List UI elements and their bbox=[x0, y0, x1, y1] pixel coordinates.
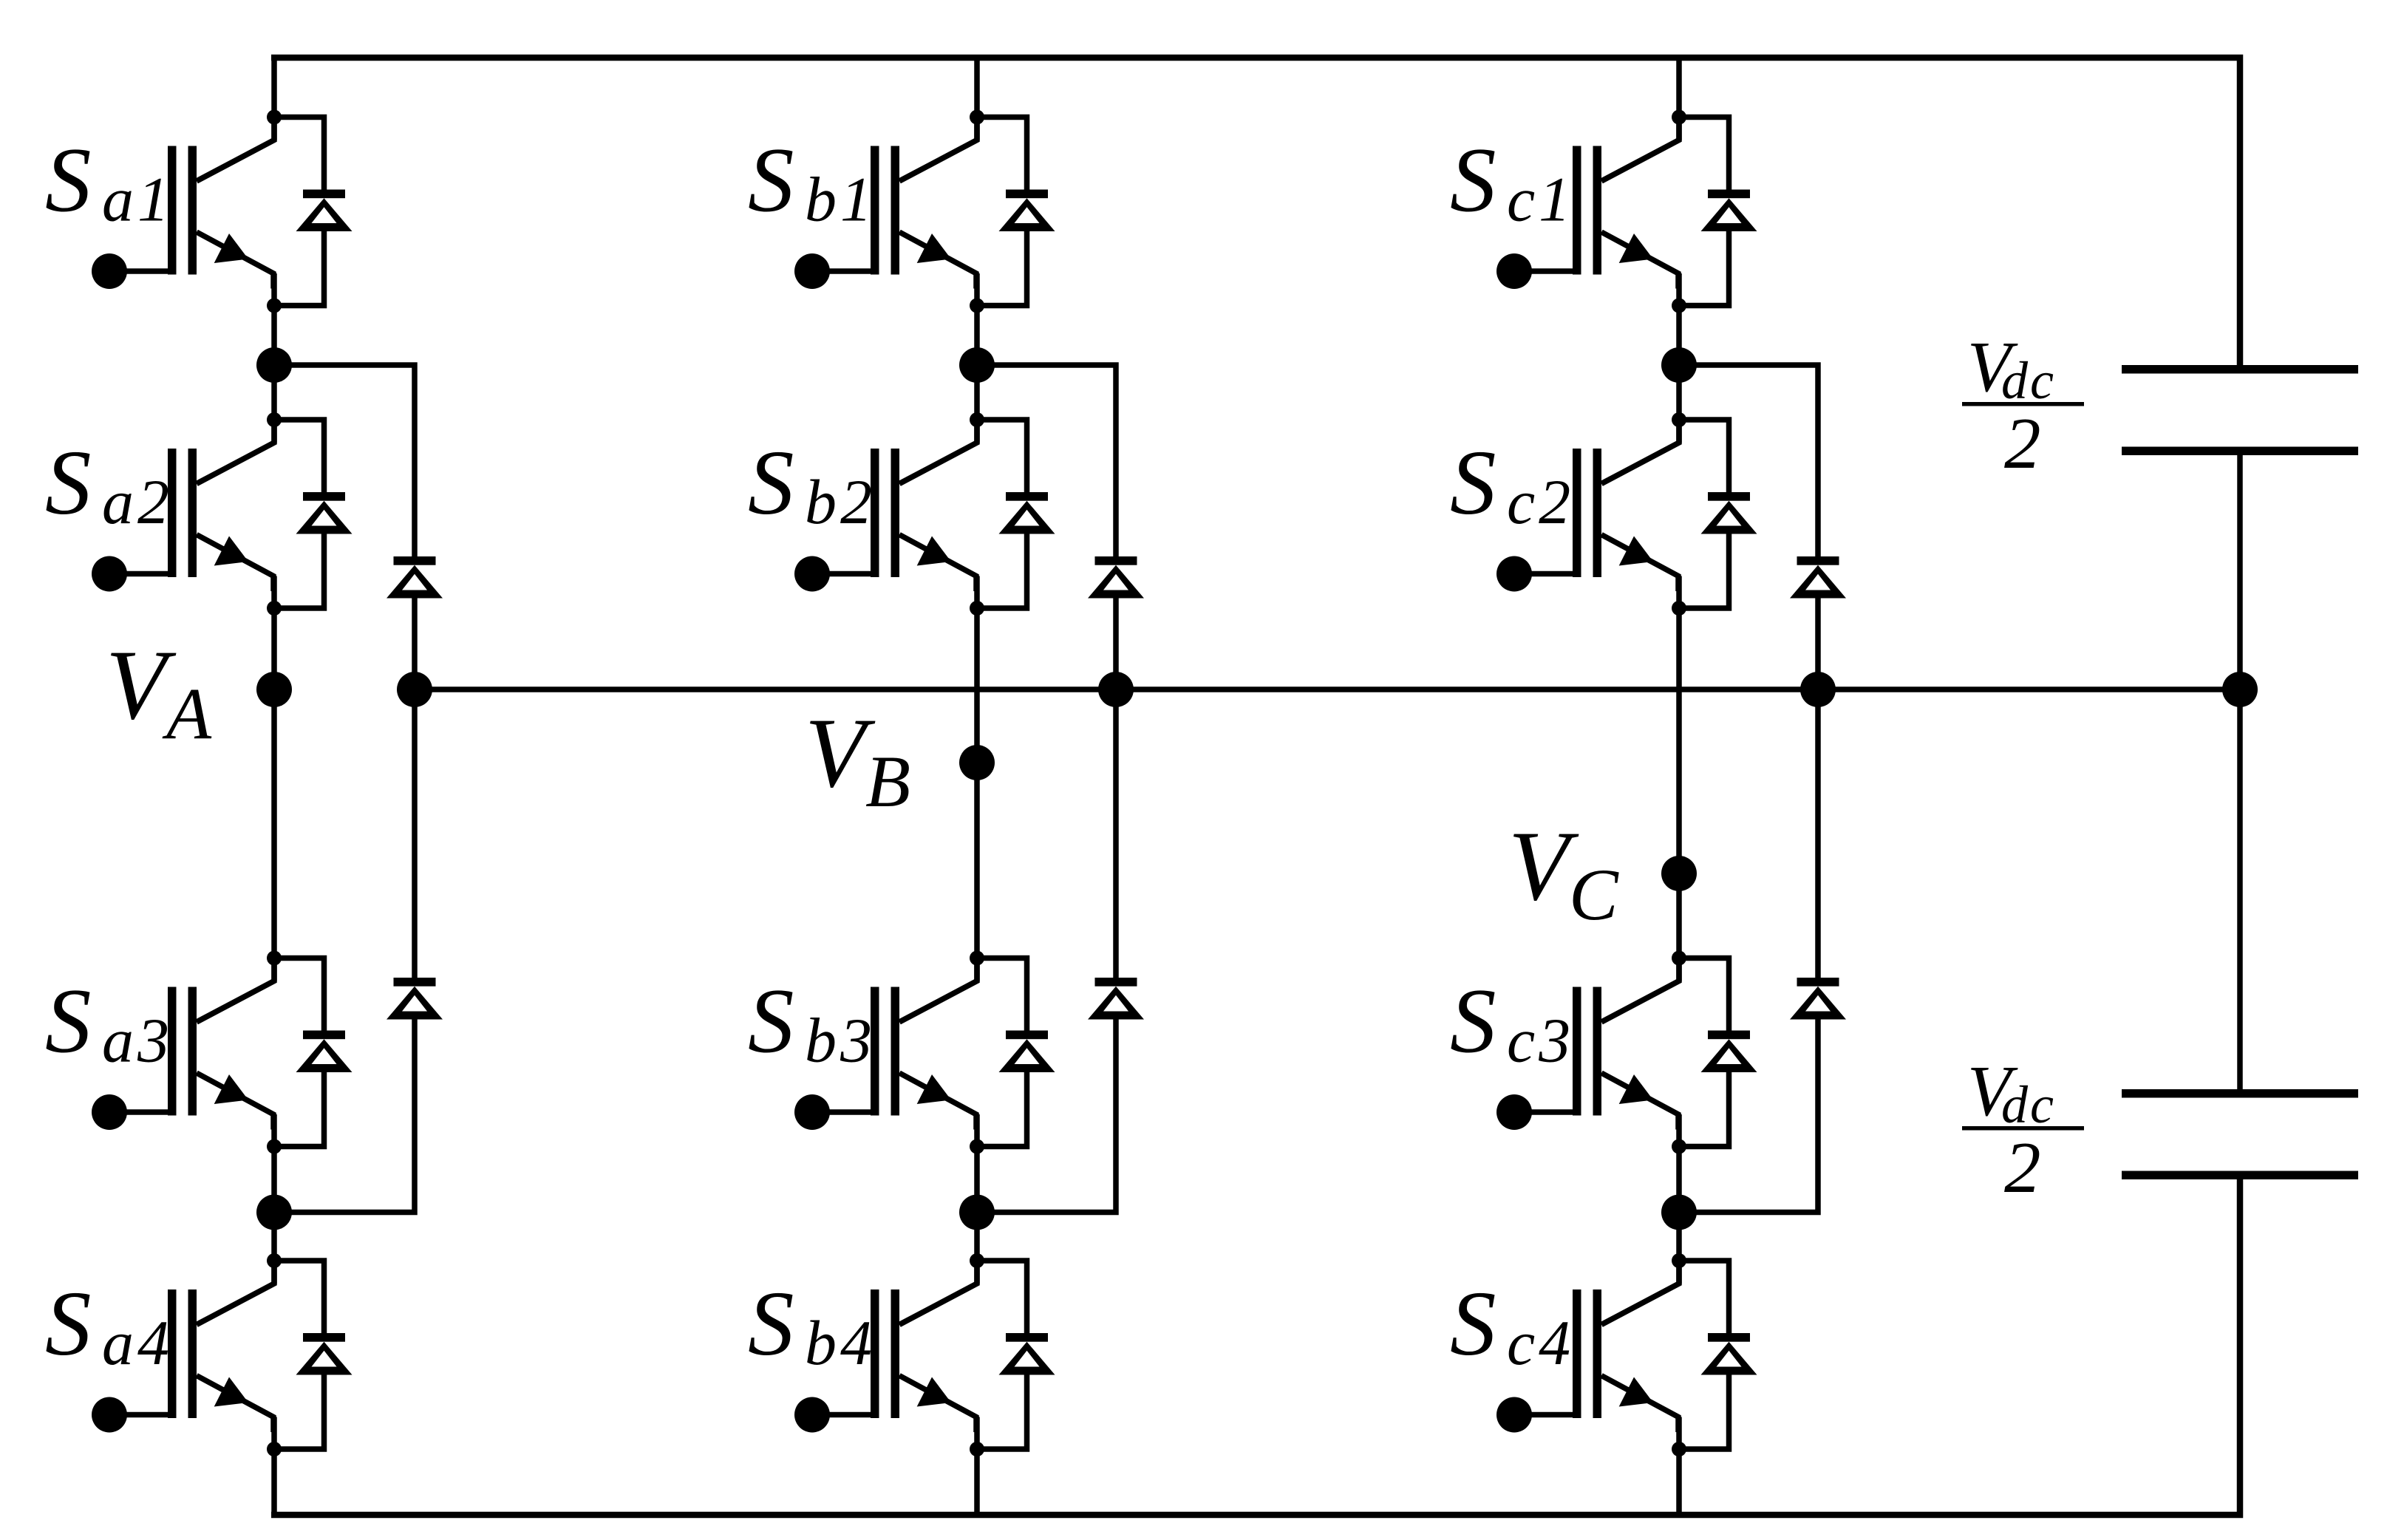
neutral junction dot phase A bbox=[397, 672, 432, 707]
junction dot c1 collector bbox=[1672, 110, 1686, 125]
antiparallel diode of Sa4 bbox=[274, 1261, 353, 1449]
label Sb1 bbox=[748, 130, 876, 235]
wire clamp branch lower phase B bbox=[977, 1018, 1116, 1213]
wire clamp branch middle phase C bbox=[1815, 596, 1821, 978]
svg-text:c2: c2 bbox=[1507, 466, 1574, 537]
transistor Sb3 bbox=[794, 958, 977, 1131]
node N1 phase A bbox=[256, 347, 292, 383]
junction dot b4 emitter bbox=[970, 1442, 984, 1456]
svg-text:S: S bbox=[1450, 1273, 1496, 1375]
label VA bbox=[106, 630, 212, 754]
wire neutral line bbox=[415, 686, 2240, 692]
svg-text:a4: a4 bbox=[102, 1307, 173, 1378]
label Sc2 bbox=[1450, 432, 1574, 537]
svg-text:c4: c4 bbox=[1507, 1307, 1574, 1378]
svg-text:S: S bbox=[45, 1273, 92, 1375]
transistor Sc3 bbox=[1496, 958, 1679, 1131]
junction dot a4 collector bbox=[267, 1253, 282, 1268]
transistor Sc1 bbox=[1496, 117, 1679, 290]
svg-text:b4: b4 bbox=[805, 1307, 876, 1378]
junction dot a4 emitter bbox=[267, 1442, 282, 1456]
node N2 phase A bbox=[256, 1195, 292, 1230]
wire clamp branch lower phase A bbox=[274, 1018, 415, 1213]
wire top DC bus bbox=[271, 58, 2240, 365]
antiparallel diode of Sb4 bbox=[977, 1261, 1055, 1449]
junction dot a2 emitter bbox=[267, 601, 282, 616]
svg-text:S: S bbox=[748, 1273, 794, 1375]
antiparallel diode of Sc4 bbox=[1679, 1261, 1757, 1449]
transistor Sb2 bbox=[794, 420, 977, 592]
transistor Sb4 bbox=[794, 1261, 977, 1433]
clamp diode Da6 bbox=[387, 978, 443, 1020]
svg-text:S: S bbox=[45, 971, 92, 1073]
wire phase A leg bbox=[271, 58, 277, 1515]
wire bottom DC bus bbox=[271, 1179, 2240, 1515]
label Sa3 bbox=[45, 971, 173, 1076]
transistor Sb1 bbox=[794, 117, 977, 290]
svg-text:S: S bbox=[1450, 971, 1496, 1073]
junction dot b2 collector bbox=[970, 412, 984, 427]
svg-text:S: S bbox=[45, 130, 92, 232]
svg-text:S: S bbox=[748, 971, 794, 1073]
node N1 phase B bbox=[959, 347, 995, 383]
transistor Sa3 bbox=[92, 958, 274, 1131]
antiparallel diode of Sb2 bbox=[977, 420, 1055, 608]
svg-text:A: A bbox=[162, 672, 212, 754]
neutral junction dot phase C bbox=[1800, 672, 1836, 707]
output node VC dot bbox=[1661, 856, 1697, 891]
wire clamp branch upper phase C bbox=[1679, 365, 1818, 556]
junction dot c2 collector bbox=[1672, 412, 1686, 427]
junction dot a2 collector bbox=[267, 412, 282, 427]
svg-text:S: S bbox=[1450, 432, 1496, 534]
label Sa2 bbox=[45, 432, 173, 537]
svg-text:c1: c1 bbox=[1507, 164, 1574, 235]
output node VA dot bbox=[256, 672, 292, 707]
node N1 phase C bbox=[1661, 347, 1697, 383]
label Vdc/2 lower bbox=[1962, 1052, 2084, 1208]
clamp diode Db6 bbox=[1088, 978, 1144, 1020]
antiparallel diode of Sc2 bbox=[1679, 420, 1757, 608]
wire clamp branch upper phase B bbox=[977, 365, 1116, 556]
output node VB dot bbox=[959, 745, 995, 780]
svg-text:a2: a2 bbox=[102, 466, 173, 537]
antiparallel diode of Sc3 bbox=[1679, 958, 1757, 1147]
label Sc1 bbox=[1450, 130, 1574, 235]
svg-text:S: S bbox=[1450, 130, 1496, 232]
node N2 phase B bbox=[959, 1195, 995, 1230]
label Sb3 bbox=[748, 971, 876, 1076]
clamp diode Da5 bbox=[387, 556, 443, 599]
clamp diode Dc6 bbox=[1790, 978, 1846, 1020]
label Sc3 bbox=[1450, 971, 1574, 1076]
svg-text:S: S bbox=[748, 130, 794, 232]
svg-text:a3: a3 bbox=[102, 1005, 173, 1076]
wire clamp branch upper phase A bbox=[274, 365, 415, 556]
svg-text:S: S bbox=[45, 432, 92, 534]
svg-text:B: B bbox=[865, 740, 910, 822]
wire phase C leg bbox=[1676, 58, 1682, 1515]
antiparallel diode of Sc1 bbox=[1679, 117, 1757, 306]
label Sc4 bbox=[1450, 1273, 1574, 1378]
svg-text:b2: b2 bbox=[805, 466, 876, 537]
junction dot b4 collector bbox=[970, 1253, 984, 1268]
junction dot c1 emitter bbox=[1672, 299, 1686, 313]
svg-text:2: 2 bbox=[2004, 1128, 2041, 1208]
neutral junction dot phase B bbox=[1098, 672, 1134, 707]
junction dot c3 collector bbox=[1672, 951, 1686, 966]
svg-text:2: 2 bbox=[2004, 403, 2041, 484]
junction dot b1 collector bbox=[970, 110, 984, 125]
label VC bbox=[1508, 811, 1619, 936]
clamp diode Dc5 bbox=[1790, 556, 1846, 599]
capacitor C1 bbox=[2122, 365, 2358, 455]
wire clamp branch lower phase C bbox=[1679, 1018, 1818, 1213]
junction dot a3 emitter bbox=[267, 1139, 282, 1154]
transistor Sc4 bbox=[1496, 1261, 1679, 1433]
junction dot a3 collector bbox=[267, 951, 282, 966]
antiparallel diode of Sa2 bbox=[274, 420, 353, 608]
label VB bbox=[805, 698, 910, 822]
label Sa4 bbox=[45, 1273, 173, 1378]
svg-text:dc: dc bbox=[2001, 1075, 2056, 1134]
antiparallel diode of Sa1 bbox=[274, 117, 353, 306]
label Sa1 bbox=[45, 130, 173, 235]
junction dot a1 collector bbox=[267, 110, 282, 125]
clamp diode Db5 bbox=[1088, 556, 1144, 599]
junction dot c4 emitter bbox=[1672, 1442, 1686, 1456]
junction dot b2 emitter bbox=[970, 601, 984, 616]
antiparallel diode of Sb3 bbox=[977, 958, 1055, 1147]
svg-text:S: S bbox=[748, 432, 794, 534]
transistor Sc2 bbox=[1496, 420, 1679, 592]
transistor Sa2 bbox=[92, 420, 274, 592]
wire phase B leg bbox=[974, 58, 980, 1515]
label Vdc/2 upper bbox=[1962, 327, 2084, 484]
svg-text:dc: dc bbox=[2001, 351, 2056, 410]
junction dot b3 emitter bbox=[970, 1139, 984, 1154]
transistor Sa1 bbox=[92, 117, 274, 290]
antiparallel diode of Sa3 bbox=[274, 958, 353, 1147]
antiparallel diode of Sb1 bbox=[977, 117, 1055, 306]
capacitor C2 bbox=[2122, 1089, 2358, 1179]
label Sb4 bbox=[748, 1273, 876, 1378]
junction dot b1 emitter bbox=[970, 299, 984, 313]
node capacitor midpoint bbox=[2222, 672, 2258, 707]
junction dot a1 emitter bbox=[267, 299, 282, 313]
junction dot c4 collector bbox=[1672, 1253, 1686, 1268]
svg-text:b3: b3 bbox=[805, 1005, 876, 1076]
svg-text:C: C bbox=[1569, 854, 1619, 936]
svg-text:a1: a1 bbox=[102, 164, 173, 235]
label Sb2 bbox=[748, 432, 876, 537]
wire capacitor branch upper bbox=[2237, 455, 2243, 1089]
wire clamp branch middle phase A bbox=[412, 596, 418, 978]
junction dot c3 emitter bbox=[1672, 1139, 1686, 1154]
svg-text:b1: b1 bbox=[805, 164, 876, 235]
wire clamp branch middle phase B bbox=[1113, 596, 1119, 978]
transistor Sa4 bbox=[92, 1261, 274, 1433]
junction dot b3 collector bbox=[970, 951, 984, 966]
svg-text:c3: c3 bbox=[1507, 1005, 1574, 1076]
node N2 phase C bbox=[1661, 1195, 1697, 1230]
junction dot c2 emitter bbox=[1672, 601, 1686, 616]
